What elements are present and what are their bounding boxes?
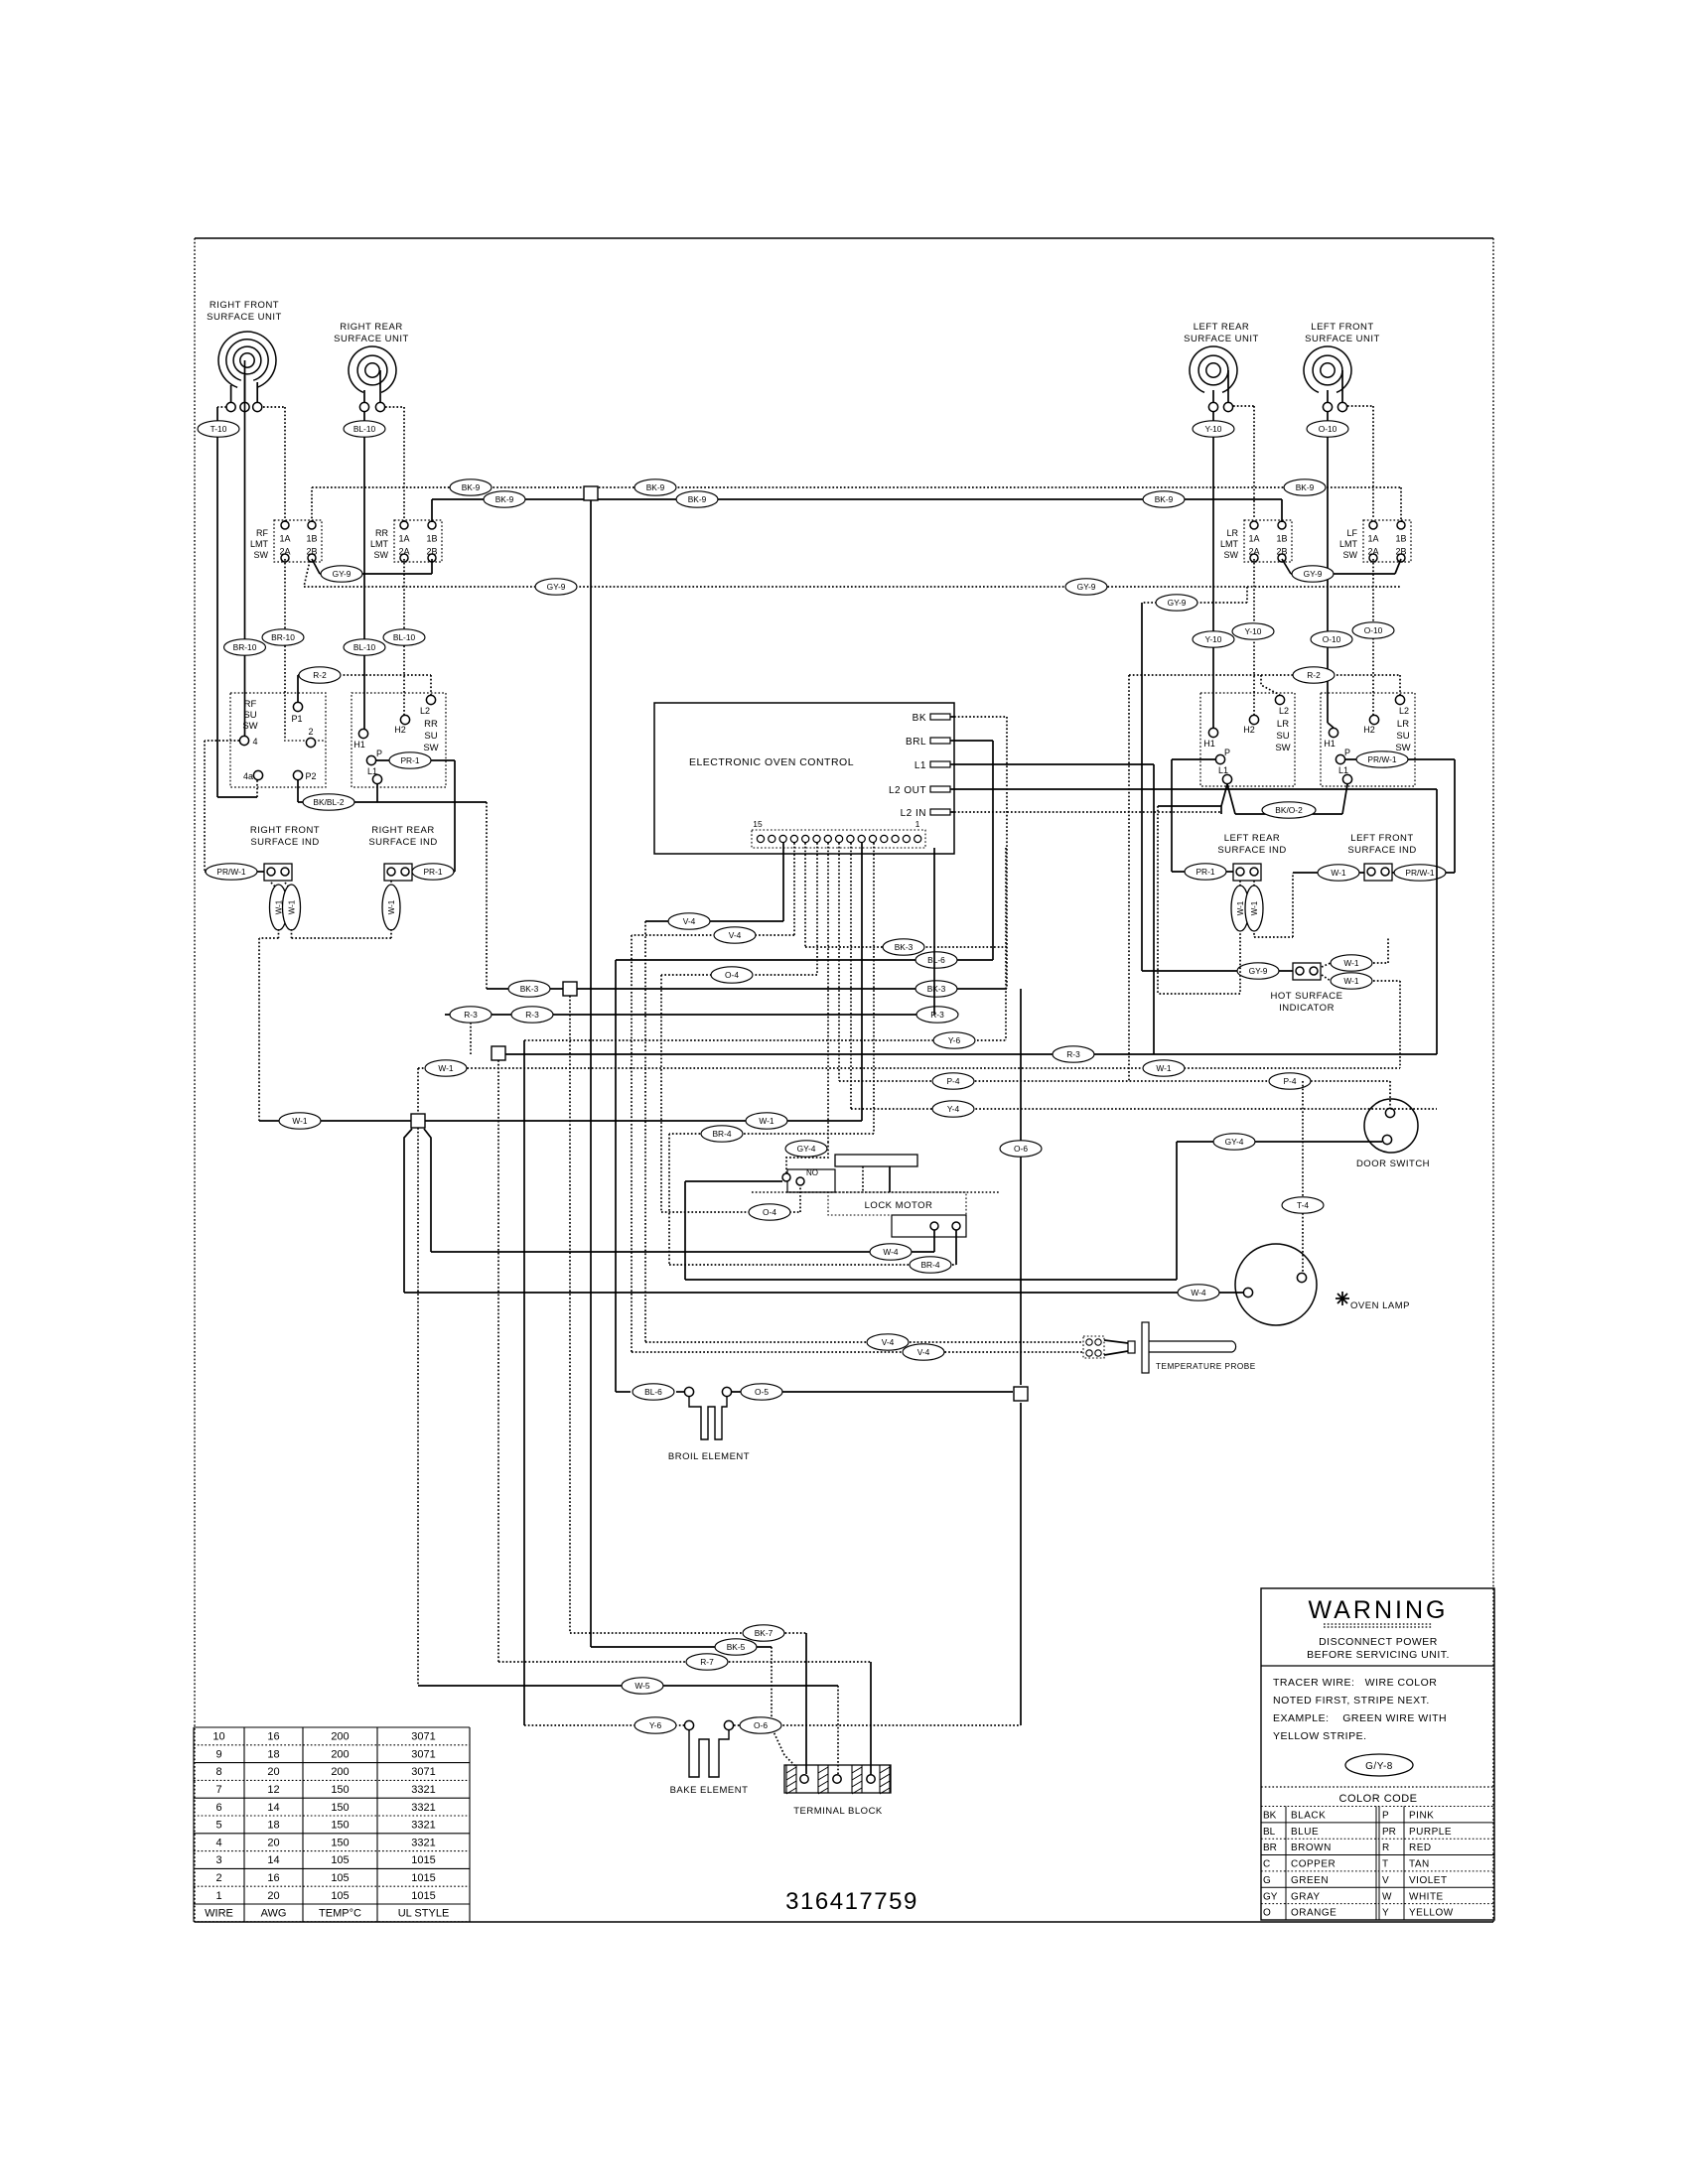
svg-text:SURFACE IND: SURFACE IND: [250, 837, 319, 848]
svg-text:C: C: [1263, 1859, 1270, 1870]
svg-text:LMT: LMT: [1220, 539, 1239, 549]
svg-text:BK: BK: [913, 713, 926, 724]
svg-text:12: 12: [267, 1784, 279, 1796]
svg-text:GY-9: GY-9: [547, 582, 566, 592]
svg-text:O-10: O-10: [1364, 625, 1383, 635]
temperature probe: [1083, 1322, 1256, 1373]
wire GY-9 solid (LR 2B to LF 2B): [1282, 559, 1401, 582]
svg-text:L2: L2: [420, 706, 430, 716]
wire W-1 vertical ovals below RF indicator: [270, 883, 301, 938]
svg-text:1A: 1A: [1248, 534, 1259, 544]
wire BL-10 (RR left lead to H1): [344, 412, 385, 729]
svg-text:SW: SW: [1343, 550, 1358, 560]
svg-text:COLOR CODE: COLOR CODE: [1339, 1793, 1418, 1805]
svg-text:TEMP°C: TEMP°C: [319, 1908, 361, 1920]
svg-text:SW: SW: [423, 743, 438, 753]
svg-text:COPPER: COPPER: [1291, 1859, 1336, 1870]
svg-text:16: 16: [267, 1731, 279, 1743]
svg-text:1A: 1A: [398, 534, 409, 544]
svg-text:INDICATOR: INDICATOR: [1279, 1003, 1335, 1014]
RF limit switch: [250, 520, 322, 562]
wire Y-6 dotted (pin to bake element): [524, 848, 1006, 1733]
wire gauge table: [194, 1727, 470, 1922]
wire W-1 long dotted: [418, 1060, 1400, 1114]
wire P-4 dotted (pin to door switch): [839, 843, 1390, 1108]
svg-text:105: 105: [331, 1890, 349, 1902]
svg-text:YELLOW: YELLOW: [1409, 1908, 1454, 1919]
svg-text:PR-1: PR-1: [1196, 867, 1214, 877]
svg-text:V-4: V-4: [683, 916, 696, 926]
svg-text:BAKE ELEMENT: BAKE ELEMENT: [670, 1785, 749, 1796]
svg-text:18: 18: [267, 1820, 279, 1832]
svg-text:BK-9: BK-9: [1296, 482, 1315, 492]
svg-text:RF: RF: [244, 699, 257, 710]
svg-text:3321: 3321: [411, 1802, 435, 1814]
svg-text:20: 20: [267, 1837, 279, 1848]
wire Y-4 dotted: [851, 843, 1437, 1117]
svg-text:200: 200: [331, 1748, 349, 1760]
wire BK-5 solid (BK-9 junction to terminal block): [591, 500, 796, 1767]
svg-text:SURFACE UNIT: SURFACE UNIT: [1184, 334, 1259, 344]
wire W-4 (to lock motor): [431, 1244, 934, 1260]
wire W-4 (to oven lamp): [404, 1285, 1243, 1300]
wire Y-10 (LR left lead to H1): [1193, 412, 1234, 728]
RR limit switch: [370, 520, 442, 562]
svg-text:15: 15: [753, 819, 763, 829]
LF limit switch: [1339, 520, 1411, 562]
svg-text:W-1: W-1: [288, 899, 297, 914]
wire RF right lead to 1A: [263, 407, 285, 522]
wire PR/W-1 (RF switch 4 to RF indicator): [205, 741, 264, 880]
wire joining RF and RR indicator tails: [292, 937, 392, 939]
svg-text:Y-10: Y-10: [1205, 634, 1222, 644]
svg-text:18: 18: [267, 1748, 279, 1760]
svg-text:P2: P2: [305, 771, 316, 781]
svg-text:PR-1: PR-1: [400, 755, 419, 765]
wire W-1 solid (junction to EOC pin): [259, 843, 862, 1129]
svg-text:150: 150: [331, 1802, 349, 1814]
svg-text:1B: 1B: [426, 534, 437, 544]
svg-text:R-2: R-2: [313, 670, 327, 680]
svg-text:P: P: [1382, 1811, 1389, 1822]
svg-text:TEMPERATURE PROBE: TEMPERATURE PROBE: [1156, 1362, 1256, 1371]
svg-text:14: 14: [267, 1854, 279, 1866]
svg-text:R-7: R-7: [700, 1657, 714, 1667]
svg-text:W-1: W-1: [438, 1063, 454, 1073]
wire O-6 (junction to bake element): [734, 1717, 1021, 1733]
wire W-1 (LF indicator to LR): [1293, 865, 1364, 881]
wire PR-1 (LR P to LR indicator): [1172, 759, 1233, 880]
svg-text:105: 105: [331, 1854, 349, 1866]
svg-text:8: 8: [215, 1766, 221, 1778]
svg-text:DISCONNECT POWER: DISCONNECT POWER: [1319, 1636, 1438, 1648]
svg-text:W-1: W-1: [1331, 868, 1346, 878]
left rear surface indicator: [1217, 833, 1286, 881]
svg-text:BK-9: BK-9: [495, 494, 514, 504]
svg-text:105: 105: [331, 1872, 349, 1884]
wire BK-9 dotted (RF 1B to LF 1B): [312, 479, 1401, 522]
svg-text:T-4: T-4: [1297, 1200, 1309, 1210]
svg-text:R-3: R-3: [1066, 1049, 1080, 1059]
svg-text:W-1: W-1: [1343, 976, 1359, 986]
wire O-10 (LF left lead to H1): [1307, 412, 1352, 728]
wire BL-10 (RR 2A to H2): [383, 559, 425, 715]
wire BL-6 (BRL to broil element): [616, 952, 993, 1400]
svg-text:PR: PR: [1382, 1827, 1396, 1838]
svg-text:GY: GY: [1263, 1891, 1278, 1902]
part number 316417759: [785, 1888, 918, 1915]
svg-text:BRL: BRL: [906, 737, 926, 748]
svg-text:150: 150: [331, 1820, 349, 1832]
svg-text:L1: L1: [1218, 765, 1228, 775]
wire LF right lead to 1A: [1347, 406, 1373, 517]
left front surface unit (spiral heater): [1304, 322, 1380, 412]
svg-text:O-4: O-4: [763, 1207, 776, 1217]
svg-text:RR: RR: [375, 528, 388, 538]
svg-text:9: 9: [215, 1748, 221, 1760]
svg-text:SW: SW: [1224, 550, 1239, 560]
svg-text:150: 150: [331, 1837, 349, 1848]
svg-text:BL-6: BL-6: [927, 955, 945, 965]
svg-text:20: 20: [267, 1766, 279, 1778]
svg-text:BR: BR: [1263, 1843, 1277, 1853]
svg-text:2: 2: [308, 727, 313, 737]
svg-text:R-3: R-3: [525, 1010, 539, 1020]
svg-text:SURFACE IND: SURFACE IND: [1347, 845, 1416, 856]
wire Y-10 (LR 2A to H2): [1232, 559, 1274, 715]
right front surface indicator: [250, 825, 320, 881]
svg-text:RIGHT REAR: RIGHT REAR: [340, 322, 402, 333]
svg-text:RIGHT FRONT: RIGHT FRONT: [210, 300, 279, 311]
svg-text:TAN: TAN: [1409, 1859, 1430, 1870]
svg-text:1B: 1B: [306, 534, 317, 544]
wire BK-3 dotted (pin drop): [805, 843, 1007, 955]
svg-text:4: 4: [252, 737, 257, 747]
svg-text:H2: H2: [1243, 725, 1255, 735]
svg-text:V: V: [1382, 1875, 1389, 1886]
svg-text:10: 10: [212, 1731, 224, 1743]
svg-text:1B: 1B: [1276, 534, 1287, 544]
wire W-1 vertical oval below RR indicator: [382, 881, 400, 938]
svg-text:6: 6: [215, 1802, 221, 1814]
svg-text:O-10: O-10: [1319, 424, 1337, 434]
svg-text:LEFT FRONT: LEFT FRONT: [1350, 833, 1413, 844]
svg-text:SURFACE IND: SURFACE IND: [1217, 845, 1286, 856]
svg-text:GY-4: GY-4: [1225, 1137, 1244, 1147]
svg-text:BL-10: BL-10: [353, 642, 376, 652]
svg-text:W-1: W-1: [1250, 900, 1259, 915]
svg-text:BR-4: BR-4: [712, 1129, 731, 1139]
svg-text:W-1: W-1: [759, 1116, 774, 1126]
svg-text:SW: SW: [1395, 743, 1410, 753]
svg-text:2: 2: [215, 1872, 221, 1884]
wire O-5 (broil element to junction): [732, 1280, 1021, 1725]
svg-text:R: R: [1382, 1843, 1389, 1853]
svg-text:LEFT FRONT: LEFT FRONT: [1311, 322, 1373, 333]
svg-text:1: 1: [215, 1890, 221, 1902]
svg-text:BK-7: BK-7: [755, 1628, 774, 1638]
svg-text:GY-9: GY-9: [1304, 569, 1323, 579]
svg-text:TERMINAL BLOCK: TERMINAL BLOCK: [793, 1806, 883, 1817]
svg-text:GY-9: GY-9: [1249, 966, 1268, 976]
svg-text:LOCK MOTOR: LOCK MOTOR: [865, 1200, 933, 1211]
wire BK (EOC pin to BK-3 line): [954, 717, 1007, 989]
wire LR right lead to 1A: [1233, 406, 1254, 517]
junction near broil element: [1014, 1387, 1028, 1401]
svg-text:1B: 1B: [1395, 534, 1406, 544]
svg-text:WARNING: WARNING: [1309, 1596, 1449, 1624]
wire GY-9 dotted branch to hot surface indicator: [1142, 587, 1293, 979]
svg-text:3321: 3321: [411, 1820, 435, 1832]
wire R-2 (right, to LR/LF L2): [1129, 667, 1400, 1081]
svg-text:7: 7: [215, 1784, 221, 1796]
wire PR/W-1 (LF P to LF indicator): [1345, 751, 1455, 881]
svg-text:RED: RED: [1409, 1843, 1432, 1853]
svg-text:SURFACE UNIT: SURFACE UNIT: [334, 334, 409, 344]
wire GY-9 solid (RF 2B to RR 2B): [312, 559, 432, 582]
svg-text:14: 14: [267, 1802, 279, 1814]
wire RR right lead to 1A: [385, 407, 404, 522]
svg-text:BR-4: BR-4: [920, 1260, 939, 1270]
svg-text:H1: H1: [1324, 739, 1336, 749]
svg-text:BK-3: BK-3: [927, 984, 946, 994]
svg-text:P: P: [1224, 748, 1230, 757]
svg-text:PINK: PINK: [1409, 1811, 1434, 1822]
svg-text:DOOR SWITCH: DOOR SWITCH: [1356, 1159, 1430, 1169]
wire BK/O-2 (LR L1 to LF L1): [1158, 784, 1347, 994]
svg-text:200: 200: [331, 1766, 349, 1778]
junction on W-1 line: [411, 1114, 425, 1128]
terminal block: [784, 1765, 891, 1817]
svg-text:Y-6: Y-6: [649, 1720, 662, 1730]
wire BK-9 solid (RR 1B to LR 1B): [432, 491, 1282, 522]
wire R-3 upper (to pins): [445, 848, 958, 1054]
svg-text:GREEN: GREEN: [1291, 1875, 1329, 1886]
lock motor: [752, 1155, 999, 1265]
svg-text:BR-10: BR-10: [233, 642, 257, 652]
svg-text:W: W: [1382, 1891, 1392, 1902]
wire BRL (EOC pin to BL-6 line): [954, 741, 993, 960]
wire GY-4 dotted (pin to lock motor switch): [785, 843, 828, 1173]
left front surface indicator: [1347, 833, 1416, 881]
hot surface indicator: [1271, 963, 1343, 1014]
svg-text:BK-9: BK-9: [688, 494, 707, 504]
svg-text:O-4: O-4: [725, 970, 739, 980]
wire R-7 dotted (to terminal block): [498, 1060, 871, 1775]
svg-text:SURFACE IND: SURFACE IND: [368, 837, 437, 848]
svg-text:W-4: W-4: [883, 1247, 899, 1257]
svg-text:H1: H1: [1203, 739, 1215, 749]
electronic oven control U1: [654, 703, 954, 854]
svg-text:UL STYLE: UL STYLE: [398, 1908, 450, 1920]
svg-text:AWG: AWG: [261, 1908, 287, 1920]
svg-text:H2: H2: [1363, 725, 1375, 735]
svg-text:GY-9: GY-9: [1077, 582, 1096, 592]
svg-text:SURFACE UNIT: SURFACE UNIT: [207, 312, 282, 323]
svg-text:ELECTRONIC OVEN CONTROL: ELECTRONIC OVEN CONTROL: [689, 756, 854, 768]
svg-text:BL-10: BL-10: [393, 632, 416, 642]
wire BK-3 solid (BK line to left): [487, 981, 1007, 997]
wire GY-4 solid (door switch to lock motor): [685, 1134, 1382, 1280]
svg-text:LMT: LMT: [250, 539, 269, 549]
oven lamp: [1235, 1244, 1410, 1325]
svg-text:3071: 3071: [411, 1766, 435, 1778]
svg-text:Y-10: Y-10: [1245, 626, 1262, 636]
junction on R-3 line: [492, 1046, 505, 1060]
wire V-4 dotted (pin to temperature probe): [632, 843, 1083, 1360]
svg-text:TRACER WIRE: WIRE COLOR: TRACER WIRE: WIRE COLOR: [1273, 1677, 1437, 1689]
junction on BK-3 line: [563, 982, 577, 996]
svg-text:1: 1: [915, 819, 920, 829]
wire W-1 vertical ovals below LR indicator: [1158, 873, 1293, 994]
svg-text:16: 16: [267, 1872, 279, 1884]
svg-text:GY-4: GY-4: [797, 1144, 816, 1154]
svg-text:R-3: R-3: [464, 1010, 478, 1020]
wire from RF indicator to W-1 line: [259, 938, 279, 1121]
svg-text:200: 200: [331, 1731, 349, 1743]
svg-text:G/Y-8: G/Y-8: [1365, 1761, 1393, 1772]
svg-text:BL-10: BL-10: [353, 424, 376, 434]
svg-text:BK-9: BK-9: [646, 482, 665, 492]
svg-text:O: O: [1263, 1908, 1271, 1919]
svg-text:L2 IN: L2 IN: [901, 808, 926, 819]
svg-text:Y-4: Y-4: [947, 1104, 960, 1114]
wire W-1 pair right of hot surface indicator: [1322, 937, 1400, 1068]
svg-text:W-1: W-1: [387, 899, 396, 914]
LR limit switch: [1220, 520, 1292, 562]
svg-text:BROIL ELEMENT: BROIL ELEMENT: [668, 1451, 750, 1462]
wire BK-7 dotted (to terminal block): [570, 996, 806, 1774]
svg-text:G: G: [1263, 1875, 1271, 1886]
svg-text:R-3: R-3: [930, 1010, 944, 1020]
svg-text:VIOLET: VIOLET: [1409, 1875, 1448, 1886]
svg-text:BL: BL: [1263, 1827, 1276, 1838]
svg-text:20: 20: [267, 1890, 279, 1902]
svg-text:SURFACE UNIT: SURFACE UNIT: [1305, 334, 1380, 344]
svg-text:GY-9: GY-9: [333, 569, 352, 579]
wire T-10 (RF left lead to 4a): [198, 407, 257, 797]
svg-text:W-5: W-5: [634, 1681, 650, 1691]
svg-text:V-4: V-4: [729, 930, 742, 940]
svg-text:RIGHT FRONT: RIGHT FRONT: [250, 825, 320, 836]
bake element: [670, 1720, 749, 1796]
svg-text:O-5: O-5: [755, 1387, 769, 1397]
svg-text:W-1: W-1: [1156, 1063, 1172, 1073]
right front surface unit (spiral heater): [207, 300, 282, 412]
svg-text:PR/W-1: PR/W-1: [216, 867, 246, 877]
svg-text:Y-6: Y-6: [948, 1035, 961, 1045]
svg-text:L2: L2: [1279, 706, 1289, 716]
svg-text:P: P: [1344, 748, 1350, 757]
svg-text:LMT: LMT: [370, 539, 389, 549]
svg-text:3321: 3321: [411, 1837, 435, 1848]
svg-text:BROWN: BROWN: [1291, 1843, 1332, 1853]
wire R-2 (RF P1 to RR L2): [298, 667, 431, 703]
svg-text:NOTED FIRST, STRIPE NEXT.: NOTED FIRST, STRIPE NEXT.: [1273, 1695, 1430, 1706]
svg-text:HOT SURFACE: HOT SURFACE: [1271, 991, 1343, 1002]
svg-text:SU: SU: [1276, 731, 1289, 742]
svg-text:3321: 3321: [411, 1784, 435, 1796]
svg-text:SW: SW: [1275, 743, 1290, 753]
svg-text:3071: 3071: [411, 1748, 435, 1760]
svg-text:BL-6: BL-6: [644, 1387, 662, 1397]
svg-text:R-2: R-2: [1307, 670, 1321, 680]
svg-text:O-6: O-6: [1014, 1144, 1028, 1154]
svg-text:GY-9: GY-9: [1168, 598, 1187, 608]
svg-text:1015: 1015: [411, 1854, 435, 1866]
svg-text:PURPLE: PURPLE: [1409, 1827, 1452, 1838]
svg-text:Y-10: Y-10: [1205, 424, 1222, 434]
svg-text:W-1: W-1: [1236, 900, 1245, 915]
right rear surface unit (spiral heater): [334, 322, 409, 412]
svg-text:WHITE: WHITE: [1409, 1891, 1444, 1902]
svg-text:SU: SU: [424, 731, 437, 742]
svg-text:W-1: W-1: [292, 1116, 308, 1126]
svg-text:Y: Y: [1382, 1908, 1389, 1919]
svg-text:L1: L1: [914, 760, 926, 771]
broil element: [668, 1387, 750, 1462]
wire GY-9 dotted long (RF 2B to LF area): [304, 561, 1401, 595]
left rear surface unit (spiral heater): [1184, 322, 1259, 412]
svg-text:SW: SW: [374, 550, 389, 560]
svg-text:LF: LF: [1346, 528, 1357, 538]
svg-text:L1: L1: [1338, 765, 1348, 775]
svg-text:4a: 4a: [243, 771, 253, 781]
svg-text:1A: 1A: [279, 534, 290, 544]
svg-text:BLUE: BLUE: [1291, 1827, 1319, 1838]
svg-text:BK-9: BK-9: [462, 482, 481, 492]
svg-text:BK-3: BK-3: [520, 984, 539, 994]
junction connector on BK-9 lines: [584, 486, 598, 500]
wire BR-10 (RF 2A down): [262, 559, 304, 740]
svg-text:L2: L2: [1399, 706, 1409, 716]
wire O-4 dotted (pin to lock motor switch): [661, 843, 817, 1220]
svg-text:NO: NO: [806, 1168, 818, 1177]
svg-text:316417759: 316417759: [785, 1888, 918, 1915]
wire O-6 vertical (broil/bake junction riser): [1000, 989, 1042, 1280]
svg-text:BK/O-2: BK/O-2: [1275, 805, 1303, 815]
svg-text:BR-10: BR-10: [271, 632, 295, 642]
wire W-5 solid: [418, 1678, 838, 1774]
svg-text:P1: P1: [291, 714, 302, 724]
svg-text:H2: H2: [394, 725, 406, 735]
svg-text:3: 3: [215, 1854, 221, 1866]
svg-text:L1: L1: [367, 766, 377, 776]
svg-text:BK: BK: [1263, 1811, 1277, 1822]
svg-text:EXAMPLE: GREEN WIRE WITH: EXAMPLE: GREEN WIRE WITH: [1273, 1712, 1447, 1724]
svg-text:P-4: P-4: [946, 1076, 959, 1086]
svg-text:150: 150: [331, 1784, 349, 1796]
warning and color code box: [1261, 1588, 1494, 1920]
svg-text:RR: RR: [424, 719, 438, 730]
svg-text:LR: LR: [1277, 719, 1289, 730]
svg-text:SU: SU: [1396, 731, 1409, 742]
page border: [195, 238, 1493, 1922]
svg-text:BK-5: BK-5: [727, 1642, 746, 1652]
wire W-5 bundle below W-1 junction: [404, 1128, 431, 1686]
wire V-4 solid (pin to temperature probe): [645, 843, 1083, 1350]
svg-text:BK-9: BK-9: [1155, 494, 1174, 504]
RR surface switch: [352, 693, 446, 787]
svg-text:SU: SU: [243, 710, 256, 721]
svg-text:P-4: P-4: [1283, 1076, 1296, 1086]
svg-text:O-6: O-6: [754, 1720, 768, 1730]
svg-text:RF: RF: [256, 528, 268, 538]
svg-text:LEFT REAR: LEFT REAR: [1194, 322, 1250, 333]
svg-text:PR/W-1: PR/W-1: [1405, 868, 1435, 878]
svg-text:H1: H1: [353, 740, 365, 750]
svg-text:LR: LR: [1226, 528, 1238, 538]
